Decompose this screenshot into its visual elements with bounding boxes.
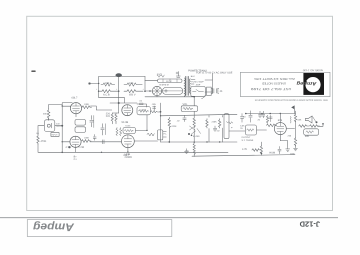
capacitor C14 xyxy=(249,111,252,122)
ground symbol output xyxy=(286,146,290,151)
svg-text:INST: INST xyxy=(56,123,61,126)
label plate below jack xyxy=(51,132,59,136)
wire jack lead left xyxy=(38,126,44,131)
resistor R10 220K vertical xyxy=(115,113,117,122)
tube pin marks xyxy=(158,75,165,77)
svg-text:500: 500 xyxy=(305,135,310,138)
ground symbol speaker xyxy=(294,146,298,151)
svg-text:OUTPUT: OUTPUT xyxy=(242,136,252,139)
capacitor C20 bypass xyxy=(93,135,96,141)
svg-text:100K: 100K xyxy=(84,137,90,140)
Ampeg strip logo text rotated xyxy=(33,220,75,232)
svg-text:Ampeg: Ampeg xyxy=(297,80,318,86)
wire R5 top xyxy=(49,105,63,109)
wire V1 cathode drop xyxy=(75,114,78,152)
resistor R19 vertical speaker xyxy=(294,114,296,122)
resistor R17 cathode vertical xyxy=(260,145,262,153)
capacitor C2 electrolytic plus xyxy=(176,72,180,78)
wire 6V6 leads xyxy=(229,114,295,141)
capacitor C7 bypass xyxy=(93,116,95,128)
node feedback flag xyxy=(291,105,294,113)
svg-text:1M: 1M xyxy=(36,132,39,135)
network box grid coupling lower xyxy=(75,127,86,133)
svg-text:20: 20 xyxy=(258,119,261,122)
svg-text:1ST 6SL7 OR 7199: 1ST 6SL7 OR 7199 xyxy=(250,87,291,91)
capacitor C9 coupling xyxy=(105,124,107,135)
wire rectifier left lead xyxy=(145,91,157,97)
rule line full width xyxy=(0,217,338,219)
svg-text:10K: 10K xyxy=(129,82,134,85)
svg-text:220K: 220K xyxy=(212,121,218,124)
capacitor C5 line caps xyxy=(212,88,219,93)
svg-text:50-0B: 50-0B xyxy=(122,121,129,124)
resistor R24 vertical xyxy=(193,117,195,128)
svg-text:250: 250 xyxy=(288,135,292,138)
wire PI column xyxy=(168,128,170,142)
wire plate feeds xyxy=(112,113,118,124)
svg-text:6SL7: 6SL7 xyxy=(72,97,78,100)
svg-text:+: + xyxy=(143,88,145,91)
wire b+ runner left xyxy=(99,91,137,103)
wire can cap left lead xyxy=(145,80,158,82)
svg-text:M M M M: M M M M xyxy=(160,83,169,86)
node junction dots misc xyxy=(62,96,281,143)
ground bus main xyxy=(40,151,229,153)
Ampeg logo black box xyxy=(303,73,324,95)
svg-text:HUM: HUM xyxy=(269,152,275,155)
svg-text:470K: 470K xyxy=(171,125,177,128)
svg-text:220: 220 xyxy=(106,115,111,118)
wire filter mid vertical xyxy=(118,76,120,91)
tube V4 6V6 xyxy=(274,123,286,135)
svg-text:J-12D: J-12D xyxy=(299,219,320,228)
resistor R6 input 1M vertical xyxy=(37,135,39,144)
speaker SP1 xyxy=(306,116,318,123)
node B+ entry terminal xyxy=(89,83,99,85)
svg-text:INPUT: INPUT xyxy=(52,134,59,137)
label model no row above logo xyxy=(303,69,323,72)
node dots right rail xyxy=(245,113,271,115)
terminal strip box xyxy=(158,130,163,140)
node B+ mid junction xyxy=(118,102,120,104)
capacitor C12 PI xyxy=(183,116,186,122)
wire B+ top rail xyxy=(99,75,145,77)
svg-text:117 V: 117 V xyxy=(166,80,172,83)
svg-text:5Y3: 5Y3 xyxy=(157,72,162,76)
svg-text:.25: .25 xyxy=(219,90,223,93)
potentiometer VR1 volume box xyxy=(137,107,160,115)
AC interlock plug box xyxy=(207,87,212,95)
transformer T1 power xyxy=(184,77,190,97)
svg-text:6SL7: 6SL7 xyxy=(124,154,130,157)
resistor R4 xyxy=(124,90,143,93)
resistor R5 grid 68K vertical xyxy=(47,109,50,120)
svg-text:BLK: BLK xyxy=(191,75,196,78)
wire R5 bottom to bus xyxy=(38,118,49,152)
wire B+ mid drop xyxy=(118,91,120,113)
wire filter left vertical xyxy=(98,76,100,91)
resistor R13 vertical xyxy=(206,119,208,128)
svg-text:TONE: TONE xyxy=(125,125,131,128)
svg-text:B+250: B+250 xyxy=(193,135,200,138)
logo white circle xyxy=(305,77,320,92)
wire speaker column xyxy=(295,111,297,146)
svg-text:.005: .005 xyxy=(152,103,157,106)
capacitor C17 bypass xyxy=(278,147,281,154)
wire heater bus lower xyxy=(192,155,295,157)
tube V1b 6SL7 second triode xyxy=(70,136,81,147)
tick mark top-left xyxy=(32,70,35,72)
network box grid coupling upper xyxy=(75,120,86,126)
potentiometer VR2 tone box xyxy=(116,127,136,135)
input jack J1 xyxy=(44,120,55,132)
wire power bottom xyxy=(145,96,194,98)
resistor R3 xyxy=(100,90,118,93)
svg-text:+: + xyxy=(116,88,118,91)
resistor R7 plate V1a xyxy=(82,106,92,109)
svg-text:4.7K: 4.7K xyxy=(242,148,247,151)
wire lower coupling xyxy=(90,141,101,143)
svg-text:ALL RES 1/2 WATT 10%: ALL RES 1/2 WATT 10% xyxy=(253,77,295,81)
fuse switch box xyxy=(191,87,206,97)
svg-text:100K: 100K xyxy=(84,103,90,106)
transistor Q1 phase splitter arrows xyxy=(190,126,201,134)
svg-text:MODEL NO. J-12D: MODEL NO. J-12D xyxy=(303,69,323,72)
wire plate rail to mid xyxy=(91,106,112,110)
capacitor C6 bypass xyxy=(90,116,94,127)
resistor R21 horizontal xyxy=(299,125,309,128)
svg-text:450 V: 450 V xyxy=(129,93,136,96)
svg-text:.02: .02 xyxy=(177,120,181,123)
node grid bus junction xyxy=(61,125,63,127)
resistor R15 vertical xyxy=(266,115,268,123)
potentiometer VR3 intensity xyxy=(181,106,197,112)
capacitor C4 can cylinder xyxy=(163,87,183,94)
capacitor C8 coupling xyxy=(101,124,104,135)
svg-text:8: 8 xyxy=(230,127,233,129)
svg-text:.02: .02 xyxy=(217,130,221,133)
wire output bottom links xyxy=(261,141,287,156)
wire top rail right xyxy=(246,113,295,115)
svg-text:1 MEG: 1 MEG xyxy=(140,109,147,112)
resistor R20 vertical lower xyxy=(294,138,296,146)
logo script ampeg xyxy=(297,80,318,86)
resistor R11 470K vertical xyxy=(168,117,170,128)
svg-text:68K: 68K xyxy=(298,119,302,122)
title block text lines (rotated 180) xyxy=(250,77,295,91)
sheet border frame xyxy=(27,16,333,210)
tube V3 triode xyxy=(122,135,135,148)
svg-text:FUSE 2 AMP: FUSE 2 AMP xyxy=(191,80,204,83)
svg-text:FOR 117V 60 CY AC ONLY USE: FOR 117V 60 CY AC ONLY USE xyxy=(196,71,233,74)
svg-text:SCHEMATIC FOR PRODUCTION MO: SCHEMATIC FOR PRODUCTION MODELS MADE AFT… xyxy=(255,99,329,102)
svg-text:6V6: 6V6 xyxy=(278,119,283,122)
wire volume to PI xyxy=(160,103,161,142)
wire top feed to PI pot xyxy=(193,97,195,106)
wire tone tap xyxy=(136,115,148,131)
svg-text:40: 40 xyxy=(243,116,246,119)
capacitor C16 vertical xyxy=(269,115,272,121)
inductor L1 choke xyxy=(289,116,292,123)
svg-text:VOL: VOL xyxy=(183,103,189,106)
wire bus from power down xyxy=(193,111,195,142)
svg-text:.02: .02 xyxy=(139,100,143,103)
resistor R9 220K vertical xyxy=(111,113,113,122)
label J-12D rotated xyxy=(299,219,320,228)
title block box xyxy=(240,72,330,96)
svg-text:470K: 470K xyxy=(41,140,47,143)
capacitor C18 pair xyxy=(259,111,262,118)
resistor R2 10K xyxy=(124,83,142,86)
wire PI outputs xyxy=(161,114,237,142)
rectifier tube V6 5Y3 xyxy=(152,86,161,95)
svg-text:15K: 15K xyxy=(105,82,110,85)
junction dots on filter bus xyxy=(98,83,146,92)
label texture extras xyxy=(36,88,302,156)
svg-text:2.2M: 2.2M xyxy=(78,146,84,149)
capacitor C3 can cylinder xyxy=(158,79,183,82)
wire transformer secondary right xyxy=(191,80,195,85)
tube V2 triode xyxy=(122,105,133,116)
svg-text:P.L.: P.L. xyxy=(164,133,168,136)
svg-text:Ampeg: Ampeg xyxy=(33,220,75,232)
resistor R1 15K xyxy=(101,83,115,86)
svg-text:GND: GND xyxy=(290,153,295,156)
capacitor C10 volume coupling xyxy=(137,103,147,107)
network box bias xyxy=(245,125,256,135)
svg-text:C+: C+ xyxy=(74,158,78,161)
capacitor C13 xyxy=(213,126,216,132)
resistor R22 horizontal xyxy=(310,125,320,128)
coupling squiggle xyxy=(147,133,154,136)
ground symbol hum xyxy=(185,149,189,154)
svg-text:A.C.B: A.C.B xyxy=(103,93,110,96)
wire PI bus xyxy=(161,141,237,143)
ampeg strip box xyxy=(27,220,172,237)
wire AC drop xyxy=(205,74,213,94)
svg-text:UNLESS NOTED: UNLESS NOTED xyxy=(262,82,286,86)
capacitor C15 to ground xyxy=(240,114,243,123)
capacitor C1 can blob xyxy=(116,73,122,77)
resistor R16 grid 6V6 xyxy=(267,124,277,127)
wire speaker right xyxy=(318,124,324,127)
resistor R23 hum balance vertical xyxy=(193,144,195,157)
node bus dots xyxy=(61,111,195,153)
output transformer T2 box xyxy=(224,114,229,139)
attenuator box L-pad xyxy=(304,129,319,135)
wire twisted line cord xyxy=(202,96,206,99)
wire filter right vertical xyxy=(144,76,146,91)
resistor R18 horizontal xyxy=(252,149,259,152)
svg-text:AMP: AMP xyxy=(196,83,201,86)
wire V2 V3 links xyxy=(101,141,158,152)
capacitor C19 series coupling xyxy=(101,140,106,144)
resistor R8 plate V1b xyxy=(82,140,92,143)
svg-text:JACK: JACK xyxy=(56,125,62,128)
wire jack to grid bus xyxy=(55,125,62,127)
tube V1a 6SL7 first triode xyxy=(70,103,81,114)
svg-text:4.7K: 4.7K xyxy=(65,146,70,149)
svg-text:+: + xyxy=(96,88,98,91)
resistor R14 vertical xyxy=(219,119,221,128)
wire grid taps xyxy=(62,103,72,142)
capacitor C11 top of volume xyxy=(153,106,156,111)
svg-text:68K: 68K xyxy=(43,113,47,116)
wire grid bus vertical xyxy=(61,103,63,152)
svg-text:S.T. TRANS: S.T. TRANS xyxy=(242,139,254,142)
